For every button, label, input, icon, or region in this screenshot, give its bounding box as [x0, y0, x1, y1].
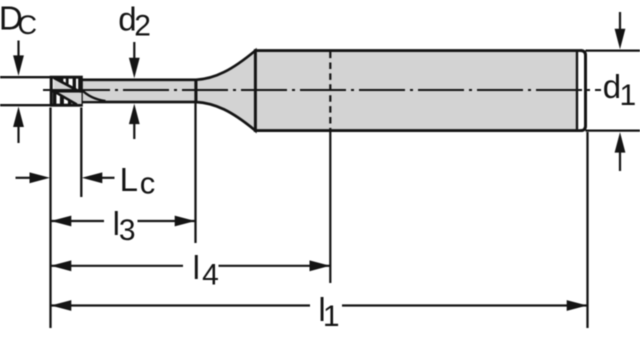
shoulder line at cone/shank junction — [254, 51, 257, 131]
dim line l3 — [51, 220, 105, 222]
dim d2 arrow down — [133, 42, 135, 59]
cutter head (Dc) — [51, 77, 81, 105]
svg-text:l: l — [193, 249, 200, 286]
svg-text:c: c — [140, 166, 156, 201]
dim d1 arrow down — [619, 12, 621, 30]
extension line d1 top — [586, 49, 640, 51]
lower flute black root — [53, 92, 57, 106]
dim Dc arrow down — [17, 41, 19, 58]
extension line Lc right — [80, 108, 82, 198]
centreline (dash-dot) — [43, 89, 601, 91]
svg-text:C: C — [18, 10, 38, 40]
svg-text:1: 1 — [323, 300, 340, 333]
lower flute face (gray wedge) — [54, 93, 81, 104]
extension line l3 right — [194, 79, 196, 244]
svg-text:1: 1 — [620, 79, 637, 112]
dim line l4 — [51, 265, 184, 267]
extension line Dc top — [0, 76, 51, 78]
svg-text:2: 2 — [134, 9, 151, 42]
extension line l4 (solid below shank) — [329, 132, 331, 283]
neck (reduced shank d2) — [81, 80, 196, 102]
svg-text:4: 4 — [202, 258, 219, 291]
upper flute teeth — [66, 76, 69, 86]
upper flute edge line — [54, 78, 77, 90]
svg-text:3: 3 — [119, 214, 136, 247]
shank end chamfer band — [577, 52, 584, 129]
svg-text:d: d — [603, 68, 621, 105]
hidden extension line l4 (dashed through shank) — [329, 52, 331, 130]
lower flute edge line — [54, 91, 77, 104]
dim d2 arrow up — [133, 124, 135, 139]
shank (cylindrical body) — [255, 51, 585, 131]
extension line datum (tool tip) — [49, 108, 51, 329]
extension line d1 bottom — [586, 129, 640, 131]
extension line l1 right — [586, 132, 588, 328]
upper flute face (gray wedge) — [54, 79, 76, 90]
dim d1 arrow up — [619, 152, 621, 171]
flute middle band — [51, 89, 83, 93]
dim Dc arrow up — [17, 127, 19, 144]
dim line l1 — [51, 304, 311, 306]
upper flute black root — [53, 76, 64, 83]
conical taper neck-to-shank — [196, 51, 255, 131]
flute runout wedge on neck — [81, 89, 105, 101]
extension line Dc bottom — [0, 104, 51, 106]
dim Lc arrow left — [101, 177, 115, 179]
dim Lc arrow right — [16, 177, 32, 179]
lower flute teeth — [60, 95, 64, 106]
svg-text:L: L — [120, 161, 138, 198]
